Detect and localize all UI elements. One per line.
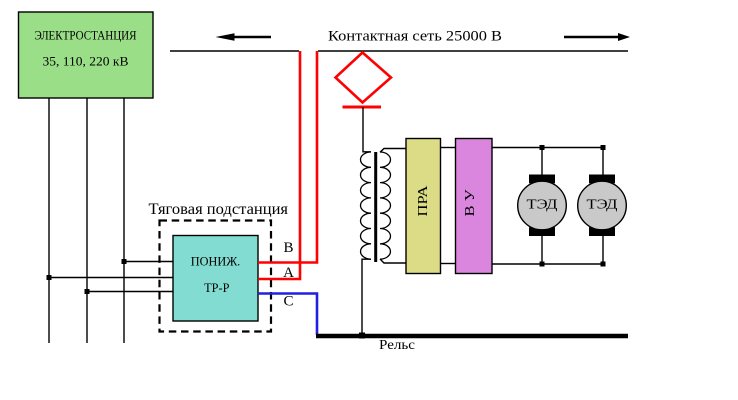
transformer primary winding — [361, 152, 371, 259]
svg-text:С: С — [283, 294, 293, 310]
svg-text:В: В — [283, 240, 293, 256]
left direction arrow — [216, 33, 272, 41]
pantograph contact bar — [343, 106, 382, 109]
svg-text:ТР-Р: ТР-Р — [204, 280, 229, 295]
step-down transformer block ПОНИЖ. ТР-Р — [173, 236, 258, 322]
pantograph diamond — [336, 53, 392, 103]
motor bus top wire — [492, 147, 603, 149]
transformer secondary winding — [380, 152, 391, 259]
junction dot top bus motor 1 — [540, 145, 545, 150]
svg-text:ПОНИЖ.: ПОНИЖ. — [191, 254, 241, 269]
power station block (ЭЛЕКТРОСТАНЦИЯ 35, 110, 220 кВ) — [19, 12, 154, 98]
feeder line 2 (phase wire from station) — [86, 98, 88, 343]
block ВУ — [456, 139, 493, 274]
substation dashed enclosure — [160, 221, 272, 332]
motor 1 feed wire top — [541, 148, 543, 177]
phase C wire (blue) — [258, 294, 317, 336]
wire ПРА to ВУ top — [441, 147, 456, 149]
motor 2 feed wire bottom — [602, 235, 604, 264]
junction dot on rail at transformer return — [359, 333, 365, 339]
junction dot bottom bus motor 2 — [601, 262, 606, 267]
wire from pantograph to transformer primary — [363, 107, 371, 152]
wire secondary top to ПРА — [380, 149, 406, 153]
motor 2 brush bottom — [589, 227, 615, 236]
junction dot on feeder 2 — [85, 289, 90, 294]
motor bus bottom wire — [492, 263, 603, 265]
motor 1 feed wire bottom — [541, 235, 543, 264]
feeder line 1 (phase wire from station) — [48, 98, 50, 343]
motor 2 brush top — [589, 175, 615, 184]
svg-text:Рельс: Рельс — [379, 338, 415, 353]
svg-text:ПРА: ПРА — [415, 185, 430, 216]
svg-text:В У: В У — [462, 189, 477, 217]
tap wire from feeder 1 to transformer — [49, 277, 174, 279]
rail (Рельс) — [316, 334, 628, 339]
svg-text:А: А — [283, 265, 294, 281]
svg-text:Контактная сеть 25000 В: Контактная сеть 25000 В — [328, 29, 502, 45]
phase B wire (red) — [258, 51, 317, 263]
motor 1 brush bottom — [529, 227, 555, 236]
motor 1 brush top — [529, 175, 555, 184]
svg-text:Тяговая подстанция: Тяговая подстанция — [149, 201, 289, 218]
svg-text:ТЭД: ТЭД — [587, 198, 619, 213]
svg-text:35, 110, 220 кВ: 35, 110, 220 кВ — [43, 54, 129, 69]
junction dot on feeder 3 — [122, 259, 127, 264]
feeder line 3 (phase wire from station) — [123, 98, 125, 343]
block ПРА — [406, 139, 441, 274]
wire secondary bottom to ПРА — [380, 259, 406, 263]
transformer core — [374, 152, 377, 262]
wire from primary bottom to rail — [362, 259, 371, 336]
phase A wire (red) — [258, 51, 300, 279]
right direction arrow — [564, 33, 630, 41]
tap wire from feeder 2 to transformer — [87, 291, 174, 293]
junction dot bottom bus motor 1 — [540, 262, 545, 267]
contact wire right segment — [318, 50, 628, 52]
motor 2 body ТЭД — [578, 181, 627, 230]
motor 1 body ТЭД — [518, 181, 567, 230]
svg-text:ЭЛЕКТРОСТАНЦИЯ: ЭЛЕКТРОСТАНЦИЯ — [35, 27, 137, 42]
wire ПРА to ВУ bottom — [441, 263, 456, 265]
motor 2 feed wire top — [602, 148, 604, 177]
contact wire left segment — [170, 50, 299, 52]
svg-text:ТЭД: ТЭД — [527, 198, 559, 213]
junction dot top bus motor 2 — [601, 145, 606, 150]
tap wire from feeder 3 to transformer — [124, 261, 174, 263]
junction dot on feeder 1 — [47, 275, 52, 280]
